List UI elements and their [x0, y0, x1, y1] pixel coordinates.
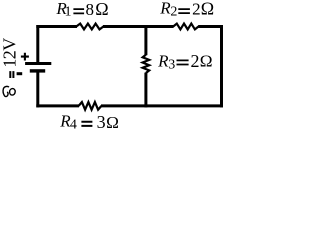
- svg-text:Ω: Ω: [200, 52, 213, 71]
- svg-text:3: 3: [168, 58, 175, 73]
- svg-text:8: 8: [86, 0, 95, 19]
- svg-text:Ω: Ω: [95, 0, 108, 19]
- svg-text:2: 2: [192, 0, 201, 19]
- svg-text:12V: 12V: [0, 38, 20, 68]
- svg-text:4: 4: [70, 118, 77, 133]
- svg-text:3: 3: [97, 112, 106, 132]
- svg-text:Ω: Ω: [201, 0, 214, 19]
- svg-text:2: 2: [191, 51, 200, 71]
- svg-text:Ω: Ω: [106, 113, 119, 132]
- svg-text:2: 2: [170, 5, 177, 20]
- svg-text:1: 1: [65, 5, 72, 20]
